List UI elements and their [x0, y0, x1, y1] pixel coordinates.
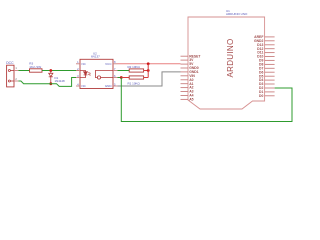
resistor R3 [29, 62, 42, 73]
opto right pin stubs [113, 64, 118, 86]
DCC pin stubs [14, 71, 18, 82]
wire junction to R1 [121, 77, 129, 79]
connector DCC [7, 65, 14, 87]
node junction D2 net [120, 76, 123, 79]
DCC pin 1 symbol [8, 70, 14, 72]
resistor R2 10K [128, 65, 144, 72]
svg-text:GND: GND [105, 84, 113, 88]
wire R3 to opto pin2 [42, 70, 79, 72]
svg-text:A5: A5 [189, 98, 193, 102]
wire VCC net: opto pin8 to Arduino 5V [118, 63, 181, 65]
svg-text:R1 10KΩ: R1 10KΩ [128, 82, 141, 86]
wire DCC pin2 along bottom to opto pin3 [18, 78, 76, 87]
wire opto pin6 to junction [118, 77, 122, 79]
diode D1 1N4148 [49, 71, 53, 84]
LED inside opto [80, 71, 91, 78]
svg-text:VCC: VCC [105, 62, 112, 66]
wire DCC pin1 to R3 [18, 70, 29, 72]
svg-text:1N4148: 1N4148 [55, 79, 66, 83]
svg-text:DCC: DCC [6, 61, 14, 65]
svg-text:1K2 /1W: 1K2 /1W [29, 65, 41, 69]
svg-text:R2 10KΩ: R2 10KΩ [128, 65, 141, 69]
output transistor inside opto [95, 71, 113, 80]
wire D2 net: junction down, along bottom, up to Arduino D2 [121, 78, 292, 122]
svg-text:ARDUINO UNO: ARDUINO UNO [226, 12, 248, 16]
optocoupler U2 6N137 box [80, 59, 113, 88]
IC U1 ARDUINO UNO outline [188, 17, 265, 109]
Arduino left pin stubs [181, 56, 189, 99]
wire GND net: opto pin5 to Arduino GND1 [118, 72, 181, 86]
wire opto pin7 to R2 [118, 70, 130, 72]
DCC pin 2 symbol [8, 80, 14, 82]
svg-text:ARDUINO: ARDUINO [226, 39, 235, 78]
opto left pin stubs [76, 64, 80, 86]
resistor R1 10K [128, 76, 144, 86]
node junction bottom of D1 [49, 82, 52, 85]
wire vertical pullup to VCC [147, 64, 149, 78]
Arduino right pin stubs [265, 37, 275, 96]
Arduino left pin labels [189, 54, 201, 101]
svg-text:D0: D0 [259, 94, 263, 98]
Arduino right pin labels [254, 35, 264, 98]
node junction on VCC wire [147, 62, 150, 65]
node junction top of D1 [49, 69, 52, 72]
wire R2 right to VCC vertical [144, 70, 149, 72]
svg-text:6N137: 6N137 [91, 54, 100, 58]
wire R1 right to vertical [144, 77, 149, 79]
node junction R2/vertical [147, 69, 150, 72]
